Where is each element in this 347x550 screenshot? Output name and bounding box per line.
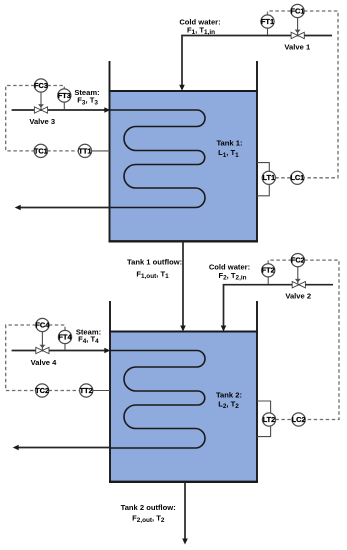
svg-text:FT3: FT3 (58, 91, 71, 100)
svg-text:F1,out, T1: F1,out, T1 (136, 270, 169, 281)
svg-text:FC4: FC4 (35, 320, 50, 329)
svg-text:F3, T3: F3, T3 (77, 96, 98, 107)
svg-text:TC2: TC2 (35, 386, 49, 395)
svg-text:FT1: FT1 (261, 17, 274, 26)
svg-text:LC1: LC1 (290, 173, 304, 182)
svg-text:Tank 1 outflow:: Tank 1 outflow: (127, 257, 182, 266)
svg-text:FT2: FT2 (262, 266, 275, 275)
svg-text:TT2: TT2 (80, 386, 93, 395)
svg-text:Tank 2:: Tank 2: (216, 391, 242, 400)
svg-text:Tank 1:: Tank 1: (216, 139, 242, 148)
svg-text:Valve 3: Valve 3 (29, 117, 55, 126)
svg-text:TC1: TC1 (34, 146, 48, 155)
svg-text:Valve 1: Valve 1 (284, 43, 311, 52)
svg-text:LT1: LT1 (263, 173, 276, 182)
svg-text:FC3: FC3 (34, 81, 48, 90)
svg-text:Tank 2 outflow:: Tank 2 outflow: (121, 503, 176, 512)
svg-text:FC2: FC2 (291, 256, 305, 265)
svg-text:F2,out, T2: F2,out, T2 (132, 514, 165, 525)
svg-text:Valve 4: Valve 4 (31, 358, 58, 367)
svg-text:Valve 2: Valve 2 (285, 291, 311, 300)
svg-text:LT2: LT2 (263, 415, 276, 424)
svg-text:F1, T1,in: F1, T1,in (187, 25, 215, 36)
svg-text:F2, T2,in: F2, T2,in (218, 271, 246, 282)
svg-text:FT4: FT4 (58, 332, 72, 341)
svg-text:TT1: TT1 (78, 146, 91, 155)
svg-text:LC2: LC2 (292, 415, 306, 424)
svg-text:FC1: FC1 (291, 6, 305, 15)
